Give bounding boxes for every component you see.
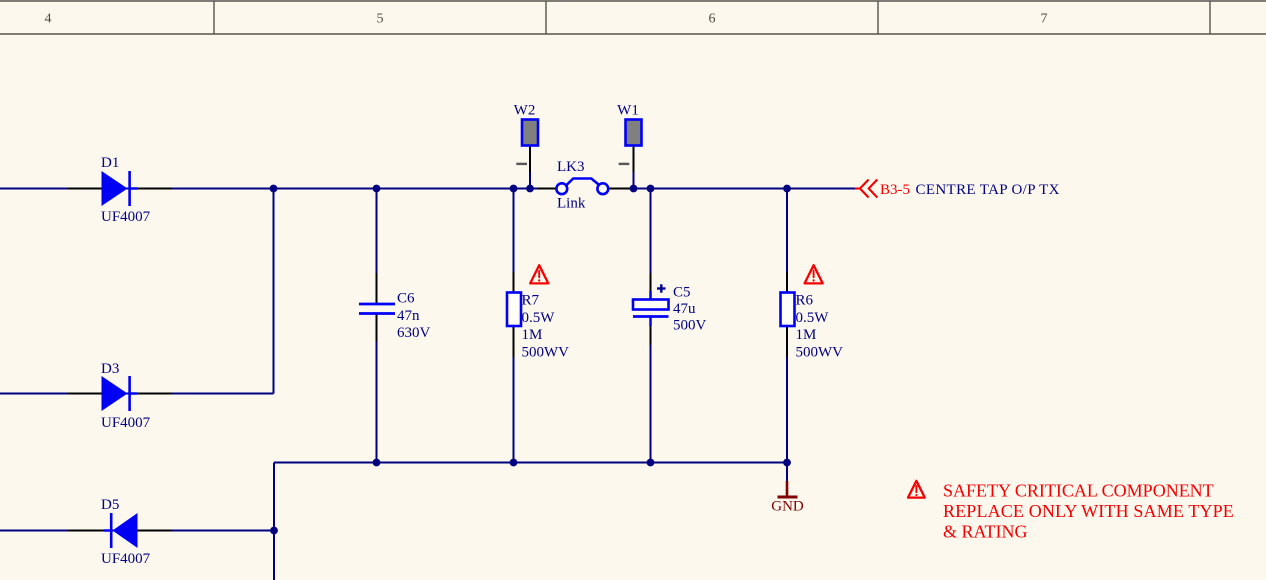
wire: D3 output horizontal y=393.5 — [0, 393, 274, 395]
svg-text:R6: R6 — [796, 293, 814, 309]
svg-text:500WV: 500WV — [522, 345, 570, 361]
svg-text:1M: 1M — [522, 327, 543, 343]
svg-text:C5: C5 — [673, 285, 691, 301]
svg-text:D3: D3 — [101, 361, 119, 377]
svg-text:GND: GND — [771, 499, 804, 515]
svg-text:4: 4 — [45, 12, 52, 27]
wire: vertical joining D3 to centre-tap net — [273, 189, 275, 394]
svg-text:C6: C6 — [397, 291, 415, 307]
svg-text:0.5W: 0.5W — [522, 310, 556, 326]
pin: D1 anode pin (black) — [68, 188, 102, 190]
jumper wire W1 — [626, 120, 642, 146]
svg-text:1M: 1M — [796, 327, 817, 343]
pin: C5 top pin (black) — [650, 273, 652, 291]
svg-text:500WV: 500WV — [796, 345, 844, 361]
pin number 1 (W1) — [619, 163, 630, 165]
ground GND — [778, 481, 798, 497]
capacitor C6 — [359, 304, 395, 314]
wire: W1 stub vertical — [633, 172, 635, 189]
svg-text:5: 5 — [377, 12, 384, 27]
svg-text:UF4007: UF4007 — [101, 551, 151, 567]
wire: C5 branch vertical x=650.5 (upper) — [650, 189, 652, 300]
diode D3 — [102, 376, 138, 411]
resistor R6 — [781, 293, 795, 327]
svg-text:0.5W: 0.5W — [796, 310, 830, 326]
svg-text:630V: 630V — [397, 325, 431, 341]
capacitor C5 (polarized) — [633, 291, 669, 326]
junction dots — [270, 185, 791, 535]
svg-text:47u: 47u — [673, 301, 696, 317]
pin: LK3 right pin (black) — [608, 188, 630, 190]
pin: D1 cathode pin (black) — [138, 188, 173, 190]
svg-text:UF4007: UF4007 — [101, 209, 151, 225]
plus sign (C5 polarity) — [657, 284, 666, 292]
pin: R7 top pin (black) — [513, 272, 515, 293]
svg-text:W2: W2 — [514, 103, 536, 119]
svg-text:REPLACE ONLY WITH SAME TYPE: REPLACE ONLY WITH SAME TYPE — [943, 501, 1234, 521]
sheet border strip — [0, 1, 1266, 34]
pin: D5 cathode pin (black) — [68, 530, 110, 532]
svg-text:500V: 500V — [673, 318, 707, 334]
wire: ground rail horizontal y=462.5 — [274, 462, 787, 464]
svg-text:D5: D5 — [101, 497, 119, 513]
svg-text:CENTRE TAP O/P TX: CENTRE TAP O/P TX — [916, 182, 1060, 198]
wire: R7 branch vertical x=513.5 — [513, 189, 515, 463]
svg-text:6: 6 — [709, 12, 716, 27]
wire: centre-tap net horizontal y=188.5 (left of link) — [0, 188, 557, 190]
wire: centre-tap net horizontal y=188.5 (right of link) — [608, 188, 855, 190]
wire: left vertical of ground rail x=274 — [273, 463, 275, 580]
wire: C6 branch vertical x=376.5 (upper) — [376, 189, 378, 304]
pin: LK3 left pin (black) — [538, 188, 557, 190]
wire: C6 branch vertical x=376.5 (lower) — [376, 315, 378, 463]
wire: W2 stub vertical — [529, 172, 531, 189]
wire: D5 output horizontal y=530.5 — [0, 530, 274, 532]
warning triangle (R7) — [530, 265, 548, 283]
jumper wire W2 — [522, 120, 538, 146]
svg-text:47n: 47n — [397, 308, 420, 324]
safety warning triangle — [908, 481, 925, 498]
diode D5 — [104, 513, 138, 548]
svg-text:Link: Link — [557, 196, 586, 212]
svg-text:B3-5: B3-5 — [880, 182, 910, 198]
svg-text:W1: W1 — [617, 103, 639, 119]
svg-text:& RATING: & RATING — [943, 522, 1028, 542]
wire: C5 branch vertical x=650.5 (lower) — [650, 317, 652, 463]
pin: C6 top pin (black) — [376, 273, 378, 303]
svg-text:UF4007: UF4007 — [101, 415, 151, 431]
svg-text:D1: D1 — [101, 155, 119, 171]
pin: C6 bottom pin (black) — [376, 315, 378, 342]
pin: D3 anode pin (black) — [68, 393, 102, 395]
svg-text:LK3: LK3 — [557, 159, 585, 175]
resistor R7 — [507, 293, 521, 327]
pin number 1 (W2) — [516, 163, 527, 165]
pin: R6 bottom pin (black) — [786, 327, 788, 357]
pin: W2 pin (black) — [529, 146, 531, 172]
pin: D3 cathode pin (black) — [138, 393, 173, 395]
svg-text:R7: R7 — [522, 293, 540, 309]
pin: R7 bottom pin (black) — [513, 327, 515, 357]
pin: C5 bottom pin (black) — [650, 326, 652, 345]
diode D1 — [102, 171, 138, 206]
port B3-5 chevron — [855, 180, 877, 198]
wire: R6 branch vertical x=787 — [786, 189, 788, 482]
warning triangle (R6) — [805, 265, 823, 283]
pin: W1 pin (black) — [633, 146, 635, 172]
link LK3 — [556, 179, 608, 195]
pin: R6 top pin (black) — [786, 272, 788, 293]
pin: D5 anode pin (black) — [138, 530, 173, 532]
svg-text:SAFETY CRITICAL COMPONENT: SAFETY CRITICAL COMPONENT — [943, 481, 1214, 501]
svg-text:7: 7 — [1041, 12, 1048, 27]
